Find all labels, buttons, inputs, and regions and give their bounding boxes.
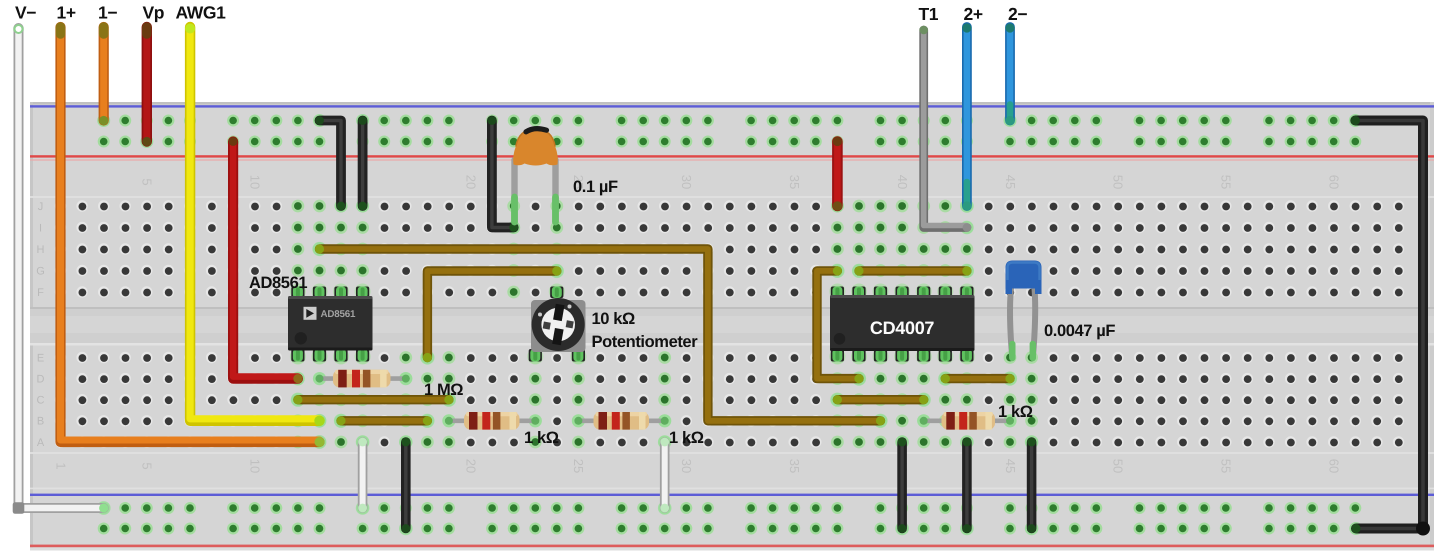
- svg-text:V−: V−: [15, 3, 36, 23]
- svg-text:B: B: [37, 416, 44, 428]
- svg-text:50: 50: [1111, 175, 1126, 189]
- svg-text:60: 60: [1327, 175, 1342, 189]
- svg-text:1 kΩ: 1 kΩ: [669, 429, 704, 447]
- svg-text:5: 5: [140, 462, 155, 469]
- wire black A40 to rail: [895, 435, 909, 535]
- svg-text:1+: 1+: [57, 3, 76, 23]
- wire black jumper rail21 to I22: [488, 116, 521, 234]
- svg-text:0.0047 µF: 0.0047 µF: [1044, 322, 1115, 340]
- svg-text:1 MΩ: 1 MΩ: [424, 381, 463, 399]
- svg-text:T1: T1: [919, 4, 939, 24]
- wire black jumper rail to J14: [313, 114, 348, 213]
- wire brown B14 to B18: [334, 414, 435, 428]
- resistor R1 1M: [313, 370, 413, 388]
- svg-text:1−: 1−: [98, 3, 117, 23]
- svg-text:5: 5: [140, 178, 155, 185]
- top red rail line: [30, 155, 1434, 157]
- svg-text:20: 20: [463, 459, 478, 473]
- svg-text:AD8561: AD8561: [321, 309, 356, 320]
- svg-text:60: 60: [1327, 459, 1342, 473]
- svg-text:2−: 2−: [1008, 4, 1027, 24]
- svg-text:F: F: [37, 287, 44, 299]
- wire brown D42 to D45: [938, 372, 1017, 386]
- svg-text:J: J: [38, 201, 44, 213]
- svg-text:45: 45: [1003, 175, 1018, 189]
- svg-text:0.1 µF: 0.1 µF: [573, 178, 618, 196]
- svg-text:30: 30: [679, 459, 694, 473]
- wire brown C12 to C19: [291, 393, 456, 407]
- svg-text:H: H: [37, 244, 45, 256]
- svg-text:10 kΩ: 10 kΩ: [592, 310, 636, 328]
- wire brown C37 to C41: [830, 393, 931, 407]
- svg-text:1: 1: [53, 462, 68, 469]
- svg-text:C: C: [37, 395, 45, 407]
- svg-text:45: 45: [1003, 459, 1018, 473]
- breadboard holes grid: [55, 115, 1404, 535]
- resistor R5 1k: [917, 412, 1017, 430]
- svg-text:25: 25: [571, 459, 586, 473]
- svg-text:CD4007: CD4007: [870, 318, 935, 338]
- wire brown E18 to G24: [420, 264, 564, 365]
- svg-text:AWG1: AWG1: [176, 3, 227, 23]
- wire brown G38 to G43: [852, 264, 974, 278]
- wire brown H13 to B39 (long): [312, 242, 887, 428]
- resistor R3 1k: [442, 412, 542, 430]
- resistor R4 1k: [572, 412, 672, 430]
- svg-text:10: 10: [247, 459, 262, 473]
- center channel groove: [30, 307, 1434, 345]
- wire white A15 to rail: [356, 435, 370, 515]
- svg-text:D: D: [37, 373, 45, 385]
- svg-text:Potentiometer: Potentiometer: [592, 333, 699, 351]
- svg-text:G: G: [36, 265, 45, 277]
- column number labels: [53, 175, 1341, 473]
- svg-text:I: I: [39, 222, 42, 234]
- svg-text:35: 35: [787, 459, 802, 473]
- IC U2 CD4007: [829, 284, 975, 365]
- wire black jumper rail to J15: [356, 114, 369, 213]
- wire brown G37 to D38 (L): [817, 264, 866, 386]
- svg-text:35: 35: [787, 175, 802, 189]
- svg-text:50: 50: [1111, 459, 1126, 473]
- svg-text:10: 10: [248, 175, 263, 189]
- svg-text:20: 20: [463, 175, 478, 189]
- wire V- (white): [13, 24, 111, 515]
- wire black right rail-to-rail jumper: [1349, 114, 1430, 536]
- capacitor C1 0.1uF: [513, 129, 558, 222]
- svg-text:30: 30: [679, 175, 694, 189]
- breadboard body: [30, 102, 1434, 550]
- wire T1 (gray): [919, 26, 973, 235]
- row letter labels: [36, 201, 45, 449]
- bottom red rail line: [30, 545, 1434, 548]
- wire red rail9 to D12: [229, 137, 305, 385]
- svg-text:55: 55: [1219, 175, 1234, 189]
- svg-text:40: 40: [895, 175, 910, 189]
- wire 2- (blue): [1004, 23, 1017, 127]
- svg-text:Vp: Vp: [143, 3, 165, 23]
- svg-text:2+: 2+: [964, 4, 983, 24]
- svg-text:AD8561: AD8561: [249, 274, 307, 292]
- op-amp U1 AD8561: [288, 284, 373, 365]
- svg-text:A: A: [37, 437, 45, 449]
- wire black A46 to rail: [1025, 435, 1039, 535]
- capacitor C2 0.0047uF: [1006, 261, 1042, 359]
- svg-text:1 kΩ: 1 kΩ: [998, 403, 1033, 421]
- wire 1- (orange): [97, 27, 110, 127]
- wire AWG1 (yellow): [185, 24, 326, 428]
- wire Vp (dark red): [140, 27, 153, 148]
- svg-text:E: E: [37, 352, 44, 364]
- svg-text:55: 55: [1219, 459, 1234, 473]
- wire white A29 to rail: [658, 435, 672, 515]
- bottom blue rail line: [30, 488, 1434, 490]
- wire 2+ (blue): [960, 23, 974, 212]
- potentiometer R2 10k: [527, 284, 586, 365]
- top blue rail line: [30, 105, 1434, 107]
- wire red jumper rail37 to J37: [831, 137, 844, 213]
- wire black A43 to rail: [960, 435, 974, 535]
- wire 1+ (orange): [61, 27, 327, 449]
- wire black A17 to rail: [399, 435, 413, 535]
- svg-text:1 kΩ: 1 kΩ: [524, 429, 559, 447]
